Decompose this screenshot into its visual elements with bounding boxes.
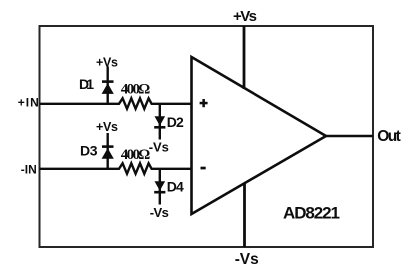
svg-text:-Vs: -Vs [235,251,259,268]
svg-text:D1: D1 [79,76,94,92]
svg-text:400Ω: 400Ω [121,82,151,98]
svg-text:D2: D2 [167,114,184,130]
svg-text:-IN: -IN [21,163,37,177]
svg-text:+Vs: +Vs [233,8,257,25]
svg-text:Out: Out [377,128,401,145]
svg-text:D3: D3 [80,142,98,158]
svg-text:400Ω: 400Ω [121,147,151,163]
svg-text:-Vs: -Vs [149,140,169,155]
svg-text:D4: D4 [167,179,184,195]
svg-text:-Vs: -Vs [150,205,169,220]
svg-text:+Vs: +Vs [96,120,118,134]
svg-text:AD8221: AD8221 [283,203,340,222]
svg-text:+Vs: +Vs [96,55,118,69]
svg-text:+IN: +IN [18,96,39,110]
